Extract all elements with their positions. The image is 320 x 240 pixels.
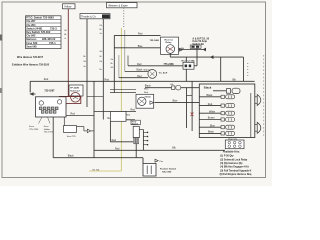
wire: relay to breaker connector	[179, 49, 207, 51]
svg-text:Rd: Rd	[100, 25, 102, 27]
svg-text:725-1: 725-1	[49, 41, 56, 45]
pto switch SW2 body	[133, 126, 139, 144]
svg-text:725-0267: 725-0267	[44, 90, 55, 93]
connector row 5 (Blue)	[199, 124, 234, 129]
wire: red row to gauge area	[94, 109, 136, 120]
border frame	[0, 2, 266, 178]
wire: relay pin drop	[169, 53, 171, 57]
svg-text:Gn: Gn	[100, 33, 102, 35]
wire: stub to pin strip	[139, 129, 143, 131]
svg-text:Black: Black	[68, 154, 75, 157]
wire: blue run to right connectors	[155, 100, 200, 103]
right harness box	[199, 84, 255, 138]
wire: vertical from box B right pin	[102, 19, 104, 120]
svg-text:TP-520B: TP-520B	[70, 88, 79, 90]
connector row 6 (Black)	[199, 131, 234, 136]
svg-text:Relay: Relay	[166, 42, 173, 44]
lamp L1 (upper headlamp)	[255, 95, 261, 106]
svg-text:(4) Blk Hex Engager # Kit: (4) Blk Hex Engager # Kit	[220, 166, 249, 169]
svg-text:Red: Red	[137, 75, 142, 78]
wire: horizontal to relay (top)	[114, 32, 160, 35]
svg-text:(3) Qty Harness Qty: (3) Qty Harness Qty	[220, 162, 243, 165]
svg-text:Black: Black	[204, 85, 212, 89]
svg-text:Bk: Bk	[111, 63, 113, 65]
wire: left lower vertical	[93, 81, 95, 157]
svg-text:Blue: Blue	[138, 45, 143, 48]
wire: dashed vertical far right	[263, 55, 265, 137]
svg-text:725-1426: 725-1426	[150, 39, 160, 42]
connector pair symbol (top right)	[204, 85, 240, 93]
wire: vertical from box B left pin	[86, 19, 88, 107]
wire ticks on vertical 87	[83, 56, 85, 68]
svg-text:Black: Black	[145, 85, 152, 88]
note: A and B circuit text	[192, 38, 209, 46]
svg-text:Rd: Rd	[83, 61, 85, 63]
svg-text:Harness: Harness	[26, 37, 37, 41]
wire: pto feed step	[110, 115, 135, 142]
svg-text:Red: Red	[71, 113, 76, 116]
svg-text:Red: Red	[44, 78, 49, 81]
svg-text:Fuse: Fuse	[44, 126, 50, 128]
battery BT1	[143, 163, 156, 176]
svg-text:725-1705: 725-1705	[44, 132, 54, 134]
lamp L2 (lower headlamp)	[255, 122, 261, 133]
wire ticks on vertical 103	[100, 25, 102, 35]
solenoid S1 label box	[69, 85, 83, 96]
svg-text:Rd: Rd	[64, 30, 66, 32]
note: battery text	[160, 167, 177, 173]
connector arrow (inline, pointing left)	[203, 48, 207, 52]
wire: ground drop from key switch	[52, 117, 54, 158]
connector row 3 (White)	[199, 110, 234, 115]
svg-text:Blue: Blue	[144, 89, 149, 91]
gauge G1 (volt meter)	[136, 94, 154, 108]
svg-text:Rd: Rd	[100, 61, 102, 63]
wire: yellow horizontal at bottom	[89, 170, 121, 172]
connector row 2 (Red)	[199, 103, 234, 108]
svg-text:Wh: Wh	[100, 51, 103, 53]
wire: vertical 186.5	[186, 88, 188, 129]
svg-text:Bk: Bk	[64, 34, 66, 36]
wire: stub y96	[87, 95, 103, 97]
svg-text:Clu 842: Clu 842	[26, 34, 36, 38]
svg-text:Western & Expre: Western & Expre	[108, 4, 128, 8]
red hatch marks	[191, 113, 194, 117]
wire: vertical 124.8	[124, 30, 126, 72]
solenoid S1 coil circle	[71, 93, 81, 103]
svg-text:Fuse 842: Fuse 842	[26, 41, 38, 45]
svg-text:(5) Full Terminal Upgrade K: (5) Full Terminal Upgrade K	[220, 169, 251, 172]
svg-text:Red: Red	[115, 147, 120, 150]
connector arrow at relay output	[179, 48, 182, 51]
wire: red to pto body	[110, 139, 133, 142]
fuse block F1 (reverse 50A)	[182, 59, 196, 69]
relay K1 (reverse relay)	[161, 37, 179, 54]
wire: bus left riser	[29, 81, 31, 92]
wire: horizontal to relay (lower)	[114, 39, 160, 48]
connector label box B (throttle tag)	[80, 14, 110, 19]
svg-text:Blue: Blue	[173, 100, 178, 103]
wire: seat switch to arrow	[77, 127, 88, 131]
svg-text:735-04: 735-04	[145, 96, 152, 99]
wire: yellow vertical harness lead	[120, 28, 122, 171]
seat switch box	[64, 117, 77, 138]
wire: black jumper with inline connector	[145, 84, 200, 90]
svg-text:Clu 264: Clu 264	[26, 23, 36, 27]
key switch SW1	[36, 90, 67, 117]
svg-text:Bu: Bu	[100, 69, 102, 71]
connector block (dark pins)	[190, 45, 201, 48]
svg-text:Fuse: Fuse	[29, 126, 35, 128]
connector arrow at gauge output	[150, 101, 154, 104]
connector arrow on right run	[210, 55, 214, 59]
svg-text:Seat 065: Seat 065	[26, 45, 37, 49]
pto switch SW2 label box	[131, 120, 140, 125]
connector arrow into key switch	[29, 92, 33, 96]
wire: lower mid bus (red)	[94, 147, 225, 151]
wire color ticks on maroon wire	[64, 30, 66, 40]
svg-text:Wire Harness 726-3157: Wire Harness 726-3157	[17, 56, 44, 59]
wire: inner vertical right box	[250, 93, 252, 138]
svg-text:725-1750: 725-1750	[162, 171, 172, 173]
svg-text:926-420-02: 926-420-02	[42, 37, 56, 41]
svg-text:Key Switch 725-302: Key Switch 725-302	[26, 30, 51, 34]
svg-text:Bk: Bk	[83, 56, 85, 58]
svg-text:(2) Solenoid Lock Relay: (2) Solenoid Lock Relay	[220, 158, 248, 161]
svg-text:725-3: 725-3	[50, 26, 57, 30]
connector block J3 (bottom right, 6 pin)	[225, 140, 244, 149]
svg-text:725-1234: 725-1234	[29, 129, 39, 131]
wire: maroon loop around solenoid	[60, 97, 81, 108]
svg-text:Holder: Holder	[44, 128, 51, 131]
wire: black into meter	[125, 69, 148, 72]
svg-text:Bk: Bk	[100, 29, 102, 31]
wire: dotted drop from box C	[123, 8, 125, 28]
svg-text:Gn: Gn	[83, 66, 85, 68]
svg-text:775-2486: 775-2486	[164, 63, 175, 66]
svg-text:Exhibitor Wire Harness 726-316: Exhibitor Wire Harness 726-3165	[12, 63, 50, 66]
wire: pto body drop	[135, 144, 137, 158]
note: available kits list	[220, 151, 252, 177]
wire: fuse top feed	[185, 57, 187, 62]
wire ticks on vertical 103 lower	[100, 51, 103, 71]
hour meter M1	[144, 69, 168, 78]
wire: fuse bottom drop	[185, 69, 187, 81]
svg-text:T.C. B+F: T.C. B+F	[159, 72, 168, 74]
svg-text:Yel 726: Yel 726	[92, 169, 100, 171]
svg-text:Red: Red	[138, 32, 143, 35]
wire: vertical drop 220.7	[220, 57, 222, 81]
wire ticks on vertical 114	[111, 59, 114, 69]
svg-text:Red: Red	[112, 139, 117, 142]
connector arrow near battery	[155, 159, 163, 163]
wire: pale vertical 120	[118, 55, 120, 78]
wire: main horizontal bus	[30, 78, 254, 81]
legend table box	[26, 16, 62, 49]
wire: riser x128	[127, 56, 129, 66]
wire: upper right run	[170, 56, 243, 58]
note: fuse callout	[29, 117, 42, 131]
wire: tie 186-192	[187, 95, 193, 97]
wire: red feed to fuse block	[128, 63, 183, 66]
wire: vertical drop 241	[243, 57, 245, 81]
svg-text:Wh: Wh	[111, 67, 114, 69]
wire: vertical 192.1	[191, 81, 193, 131]
svg-text:Clu 267: Clu 267	[26, 19, 36, 23]
connector row 1 (Black)	[199, 94, 234, 99]
svg-text:Seat 725: Seat 725	[67, 135, 77, 138]
svg-text:(6) Full Engine Harness Req: (6) Full Engine Harness Req	[220, 173, 252, 176]
svg-text:Bk: Bk	[100, 56, 102, 58]
svg-text:Available Kits:: Available Kits:	[223, 151, 240, 154]
wire: battery riser	[142, 158, 144, 164]
module box (regulator)	[110, 112, 126, 122]
wire: maroon vertical from box A	[67, 9, 69, 97]
svg-text:Switch 24481: Switch 24481	[26, 26, 43, 30]
svg-text:Yellow: Yellow	[64, 5, 72, 9]
svg-text:Red: Red	[137, 63, 142, 66]
svg-text:(1) F-50 Qty: (1) F-50 Qty	[220, 155, 234, 158]
wire: bottom black bus	[53, 154, 143, 157]
wire: blue short stub	[110, 89, 149, 91]
svg-text:Switch: Switch	[132, 122, 139, 125]
wire: red below meter	[119, 75, 148, 78]
connector arrow left-mid	[87, 129, 94, 132]
svg-text:Red: Red	[131, 109, 136, 112]
connector label box A (Yellow)	[63, 4, 76, 9]
svg-text:Rd: Rd	[111, 59, 113, 61]
svg-text:Pos: Pos	[160, 161, 164, 163]
wire: mid vertical bus	[113, 35, 115, 93]
wire: fuse to dark block riser	[196, 48, 198, 65]
svg-text:P.T.O. Switch 725-0893: P.T.O. Switch 725-0893	[26, 16, 54, 20]
connector row 4 (Brown)	[199, 117, 234, 122]
note: fuse holder callout	[44, 117, 54, 134]
svg-text:Positive Switch: Positive Switch	[160, 167, 177, 170]
wire: red stub from key switch	[66, 113, 94, 116]
svg-text:Throttle & Ch: Throttle & Ch	[81, 16, 96, 19]
connector pin strip J2	[143, 130, 148, 151]
svg-text:Black: Black	[137, 69, 144, 72]
svg-text:Red: Red	[105, 78, 110, 81]
wire: red short stub	[110, 92, 149, 94]
connector label box C (harness tag)	[107, 3, 138, 8]
wire: dotted vertical right-center	[247, 63, 249, 78]
